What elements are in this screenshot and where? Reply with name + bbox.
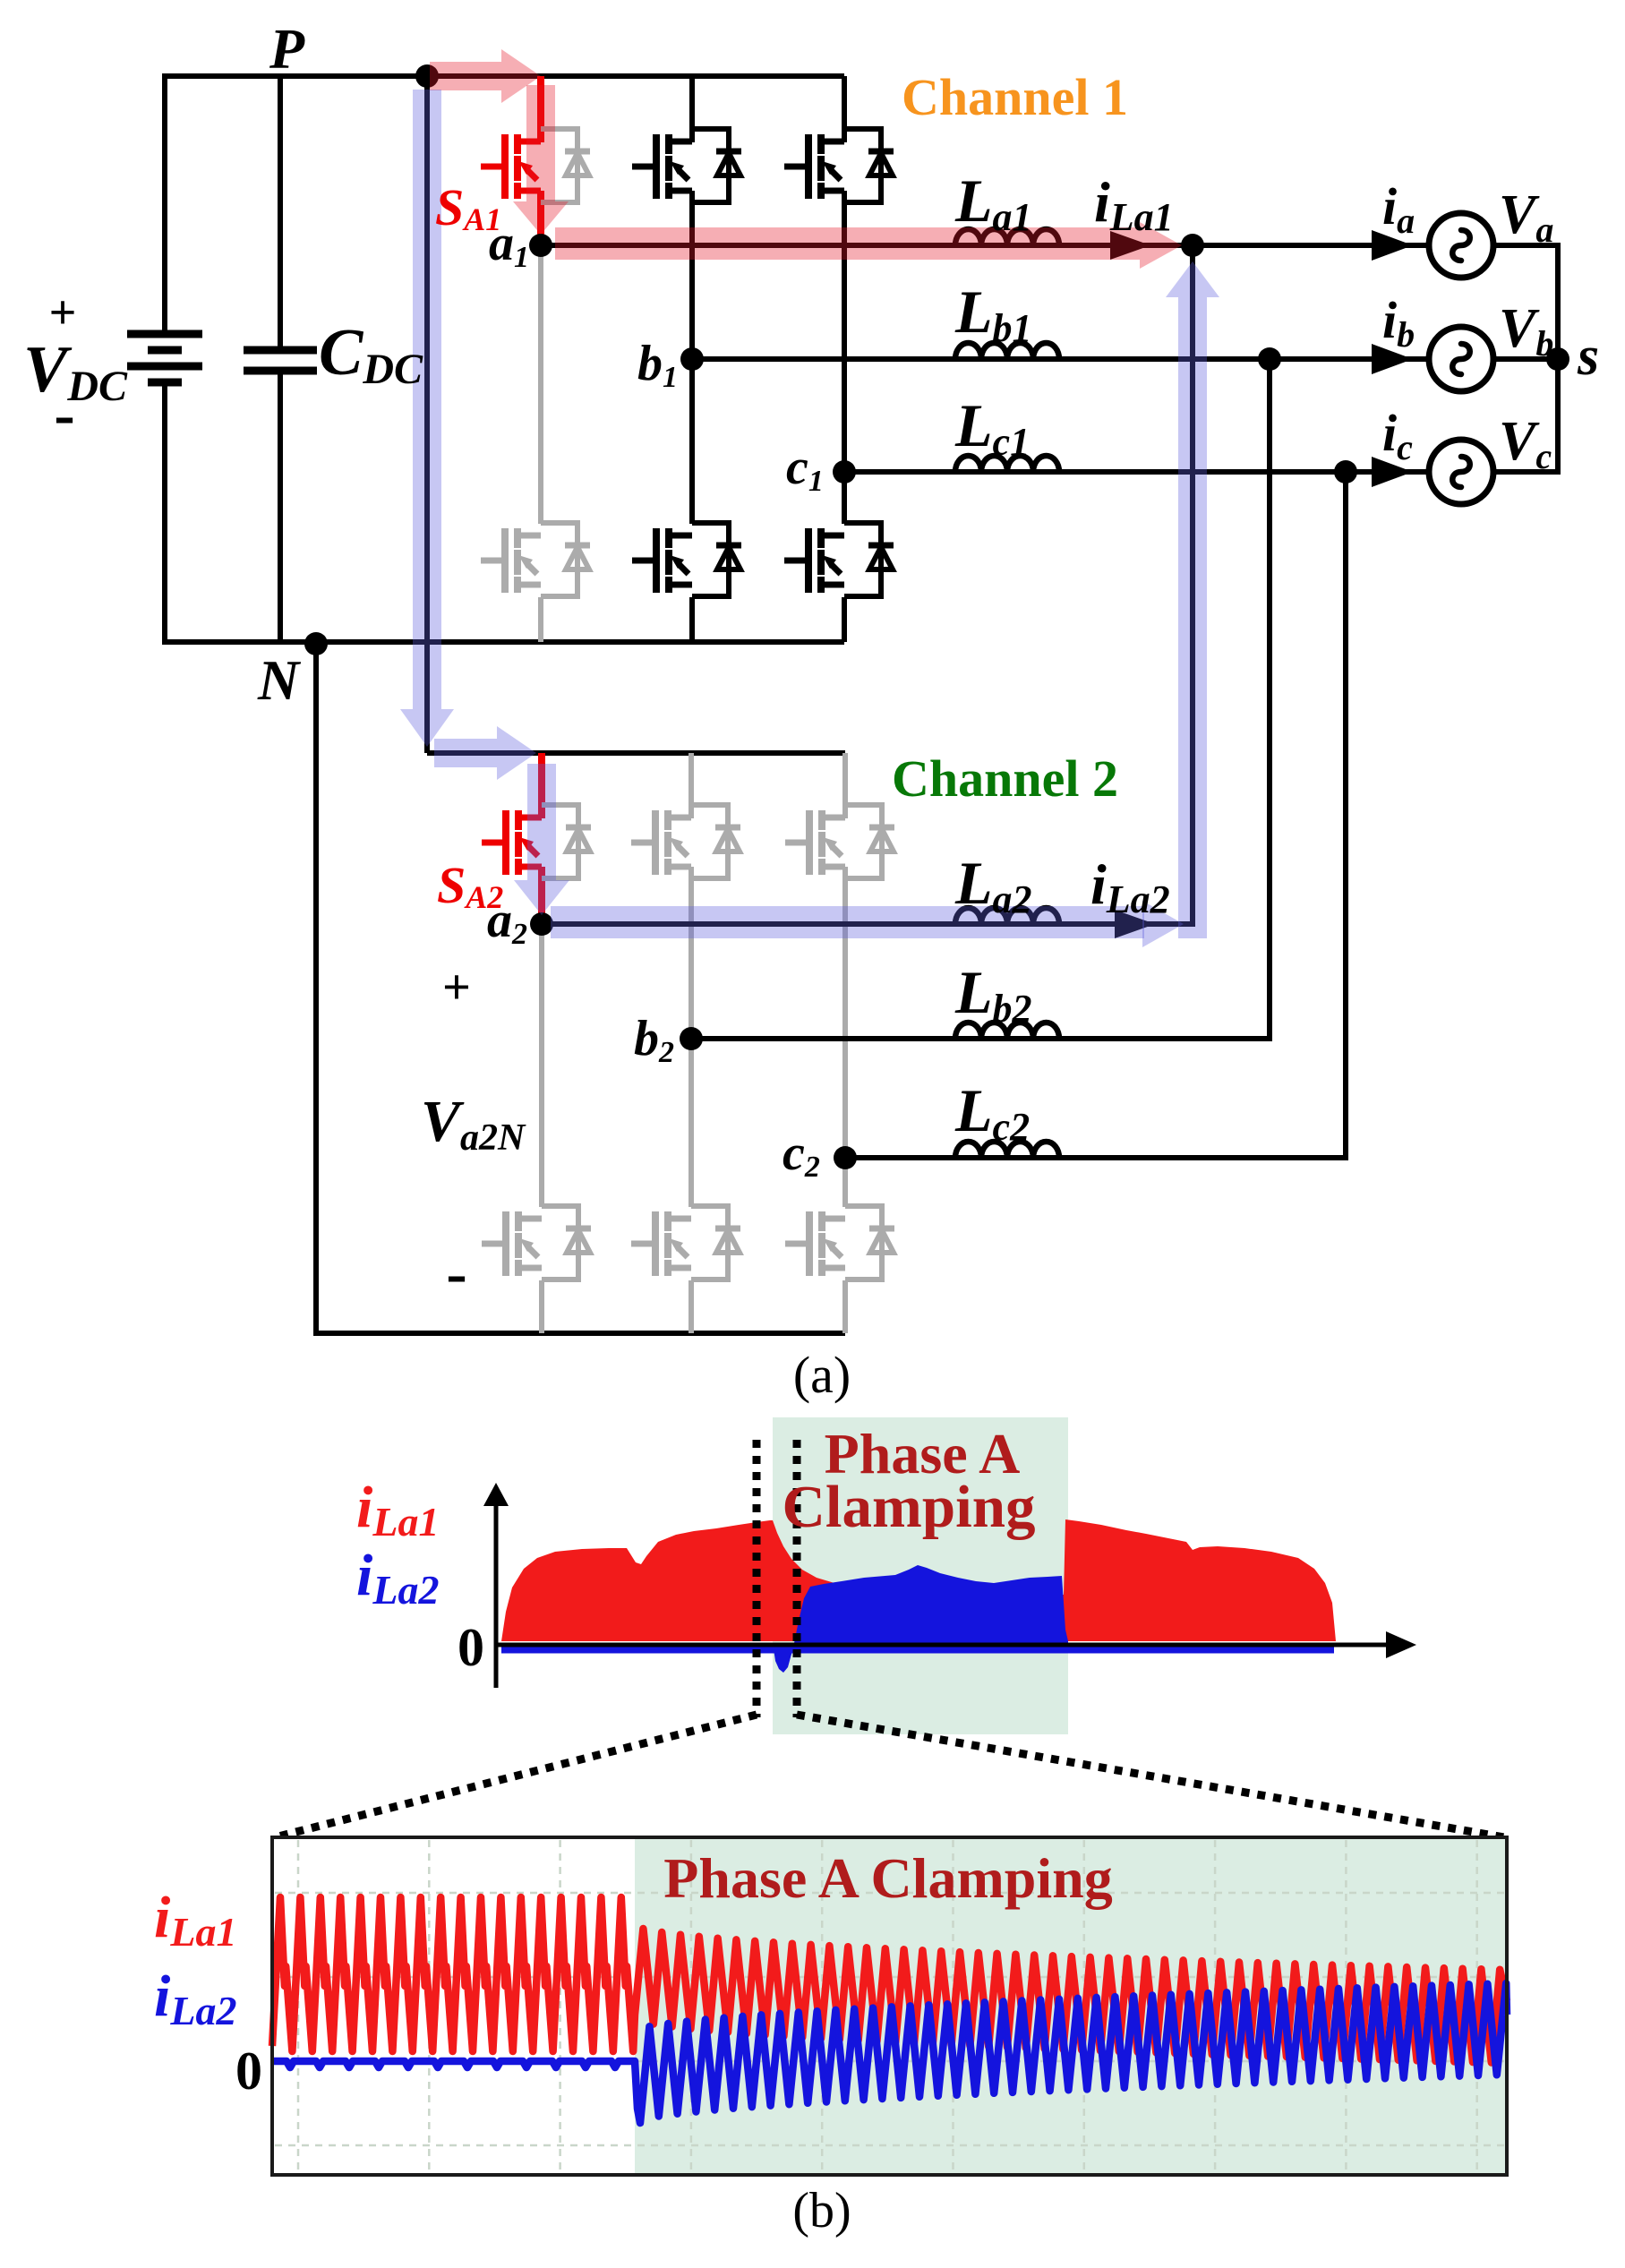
transistor phase B1 upper	[632, 129, 741, 202]
battery VDC	[127, 334, 202, 382]
svg-text:Clamping: Clamping	[783, 1474, 1036, 1540]
arrowhead iLa1 on a1 line	[1110, 231, 1150, 260]
wire: battery left branch top	[162, 73, 167, 334]
dotted zoom connector right	[797, 1715, 1504, 1837]
svg-text:Phase A Clamping: Phase A Clamping	[663, 1846, 1112, 1910]
dotted marker line left (overview)	[753, 1440, 761, 1717]
wire: phase A1 leg drain (red)	[537, 76, 544, 142]
node a2	[530, 912, 553, 936]
waveform iLa2 zero line (blue)	[501, 1648, 1334, 1654]
transistor SA1 (red, phase A1 upper)	[481, 129, 590, 202]
wire: c2 riser to c junction	[1343, 472, 1348, 1160]
dotted marker line right (overview)	[793, 1440, 801, 1717]
wire: battery left branch bottom	[162, 382, 167, 645]
ac source Vc	[1429, 440, 1493, 504]
wire: phase A2 leg lower (grey)	[539, 924, 544, 1207]
node b1	[680, 347, 704, 371]
wire: phase A2 leg drain (red)	[538, 753, 545, 818]
red current path band: P to SA1	[430, 62, 501, 90]
arrowhead ib	[1372, 344, 1413, 374]
wire: phase C2 leg	[842, 753, 848, 818]
grid lines (zoom plot)	[275, 1840, 1504, 2172]
ac source Vb	[1429, 327, 1493, 391]
transistor SA2 (red, phase A2 upper)	[482, 805, 591, 878]
wire: phase B2 leg	[688, 753, 694, 818]
red current path band: SA1 down to a1	[526, 85, 555, 201]
wire: Vc to right bus	[1493, 469, 1561, 475]
wire: Va to right bus	[1493, 243, 1561, 248]
wire: a1 output line	[541, 243, 1193, 248]
wire: phase A1 leg lower (grey)	[538, 245, 543, 524]
blue current path band: SA2 down to a2	[527, 764, 556, 880]
plot (b) overview: clamping interval shading	[773, 1417, 1068, 1734]
node a junction	[1181, 234, 1204, 257]
blue current path band: riser up to a junction	[1178, 297, 1207, 938]
wire: b2 riser to b junction	[1267, 359, 1272, 1041]
wire: phase A2 leg source (red)	[538, 867, 545, 924]
waveform iLa2 overview (blue)	[773, 1565, 1068, 1673]
wire: DC bus bottom rail N	[165, 639, 844, 645]
svg-text:-: -	[54, 381, 74, 449]
wire: capacitor branch top	[278, 76, 283, 350]
inductor La1	[955, 229, 1059, 245]
blue current path band: P down to channel2	[413, 90, 441, 709]
wire: c2 output line	[845, 1155, 1346, 1160]
node b2	[680, 1027, 703, 1050]
svg-text:+: +	[442, 960, 471, 1015]
wire: phase A1 leg source (red)	[537, 191, 544, 245]
svg-text:Channel 2: Channel 2	[892, 749, 1118, 808]
zoom plot border	[272, 1837, 1507, 2175]
svg-text:0: 0	[458, 1618, 484, 1677]
x axis overview plot	[496, 1643, 1397, 1648]
node c2	[834, 1146, 857, 1169]
inductor Lc2	[955, 1142, 1059, 1158]
wire: a2 riser to a junction	[1190, 245, 1195, 927]
svg-text:s: s	[1577, 326, 1599, 387]
wire: DC bus top rail P	[165, 73, 844, 79]
svg-text:(a): (a)	[793, 1346, 851, 1404]
wire: a2 output line	[542, 921, 1193, 927]
wire: channel2 bottom rail	[316, 1331, 845, 1336]
transistor phase A1 lower (grey)	[481, 523, 590, 596]
svg-text:0: 0	[235, 2041, 262, 2101]
wire: N branch down to channel2 bottom rail	[313, 644, 319, 1336]
transistor phase B2 lower (grey)	[631, 1206, 740, 1279]
transistor phase C1 upper	[784, 129, 894, 202]
blue current path band: a2 line	[551, 906, 1144, 938]
svg-text:N: N	[257, 648, 302, 712]
arrowhead ia	[1372, 230, 1413, 261]
svg-text:(b): (b)	[792, 2183, 851, 2238]
inductor Lb2	[955, 1023, 1059, 1039]
wire: capacitor branch bottom	[278, 371, 283, 645]
y axis overview plot	[494, 1495, 499, 1688]
svg-text:P: P	[269, 17, 305, 81]
wire: phase C1 leg	[842, 76, 847, 142]
wire: Vb to right bus	[1493, 356, 1561, 362]
waveform iLa1 overview (red)	[501, 1519, 1336, 1641]
transistor phase C1 lower	[784, 523, 894, 596]
zoom plot clamping shading	[635, 1837, 1507, 2175]
inductor Lc1	[955, 456, 1059, 472]
node a1	[529, 234, 552, 257]
node c junction	[1334, 460, 1357, 484]
wire: channel2 top rail	[427, 750, 845, 756]
red current path band: a1 line	[555, 227, 1140, 260]
wire: b1 output line	[692, 356, 1429, 362]
wire: right bus vertical (node s)	[1555, 243, 1561, 475]
waveform iLa2 zoom (blue)	[272, 1983, 1507, 2123]
svg-text:-: -	[446, 1239, 466, 1308]
capacitor CDC	[244, 350, 317, 371]
waveform iLa1 zoom (red)	[272, 1897, 1507, 2063]
transistor phase B2 upper (grey)	[631, 805, 740, 878]
node N	[304, 632, 328, 655]
transistor phase A2 lower (grey)	[482, 1206, 591, 1279]
ac source Va	[1429, 213, 1493, 278]
node c1	[833, 460, 856, 484]
svg-text:Channel 1: Channel 1	[902, 68, 1128, 126]
wire: phase B1 leg	[689, 76, 695, 142]
wire: channel2 feed from node P down	[424, 76, 430, 753]
transistor phase C2 lower (grey)	[785, 1206, 894, 1279]
blue current path band: channel2 rail to SA2	[434, 739, 497, 767]
arrowhead ic	[1372, 457, 1413, 487]
dotted zoom connector left	[275, 1715, 757, 1837]
node b junction	[1258, 347, 1281, 371]
node P	[415, 64, 439, 88]
wire: a phase line to source	[1193, 243, 1429, 248]
zoom plot box background	[272, 1837, 1507, 2175]
wire: c1 output line	[844, 469, 1429, 475]
transistor phase B1 lower	[632, 523, 741, 596]
wire: b2 output line	[691, 1036, 1270, 1041]
svg-text:+: +	[49, 286, 77, 339]
arrowhead iLa2 on a2 line	[1115, 910, 1155, 938]
node s	[1546, 347, 1569, 371]
transistor phase C2 upper (grey)	[785, 805, 894, 878]
inductor La2	[955, 908, 1059, 924]
inductor Lb1	[955, 343, 1059, 359]
